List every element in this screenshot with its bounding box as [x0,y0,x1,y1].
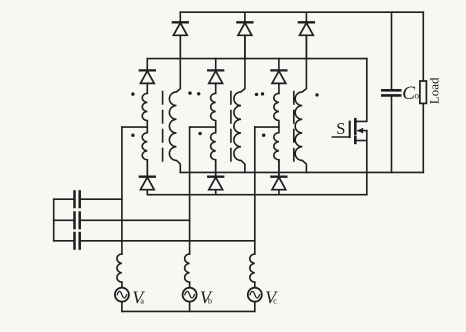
transformer T2 primary winding (tapped) [211,93,216,176]
diode D1 (top row) [173,22,188,35]
capacitor Cb (input filter) [75,213,80,229]
wire inductor to source c [254,282,256,288]
wire second bus [147,59,366,71]
resistor Load (box) [420,81,427,103]
wire output negative rail [180,171,423,173]
wire capacitor Cb left lead [54,219,74,221]
wire tap of T2 to phase line [190,126,216,128]
wire load top lead [422,12,424,81]
capacitor Ca (input filter) [75,191,80,207]
wire capacitor Co bottom lead [391,97,393,173]
wire neutral return [122,310,255,312]
polarity dot T2 primary lower [198,132,201,135]
wire tap of T1 to phase line [122,126,147,128]
diode D7 (bottom row) [140,177,155,190]
transistor S (MOSFET switch) [332,119,366,143]
wire bottom diode D9 leads [278,160,280,195]
wire top diode D3 leads [305,12,307,58]
wire tap of T3 to phase line [255,126,279,128]
wire bottom bus (diode anode rail) [147,194,366,196]
svg-text:Load: Load [426,77,441,104]
transformer T3 primary winding (tapped) [274,93,279,176]
wire load bottom lead [422,103,424,172]
polarity dot T2 primary [197,92,200,95]
wire inductor to source a [121,282,123,288]
wire source a to neutral [121,302,123,312]
wire top diode D2 leads [244,12,246,58]
polarity dot T1 primary [131,92,134,95]
transformer T2 core [230,92,232,162]
diode D6 (middle row) [271,70,286,83]
wire capacitor Ca left lead [54,198,74,200]
source Vc (AC) [248,288,262,302]
diode D3 (top row) [299,22,314,35]
polarity dot T3 primary [261,92,264,95]
diode D9 (bottom row) [271,177,286,190]
polarity dot T1 secondary [188,91,191,94]
wire phase c line [254,127,256,254]
wire bottom diode D7 leads [146,160,148,195]
wire bus to MOSFET drain [356,59,367,122]
wire mid diode D6 cathode stub [278,59,280,71]
wire mid diode D5 anode lead [215,83,217,93]
wire star-point bus of input capacitors [53,199,55,241]
wire source c to neutral [254,302,256,312]
capacitor Co [382,90,400,95]
transformer T1 secondary winding [169,36,180,172]
wire capacitor Cc left lead [54,240,74,242]
wire mid diode D5 cathode stub [215,59,217,71]
wire source b to neutral [189,302,191,312]
wire phase a line [121,127,123,254]
wire phase b line [189,127,191,254]
polarity dot T1 primary lower [131,134,134,137]
transformer T1 core [162,92,164,162]
diode D8 (bottom row) [208,177,223,190]
transformer T1 primary winding (tapped) [142,93,147,176]
wire bottom diode D8 leads [215,160,217,195]
diode D5 (middle row) [208,70,223,83]
wire mid diode D4 anode lead [146,83,148,93]
wire capacitor Cc right lead [81,240,255,242]
svg-text:S: S [336,119,345,138]
transformer T3 core [293,92,295,162]
wire top positive bus [180,11,423,13]
inductor La [117,254,122,282]
polarity dot T3 primary lower [262,134,265,137]
transformer T2 secondary winding [234,36,245,172]
wire MOSFET source down to rails [366,131,368,195]
wire top diode D1 leads [179,12,181,58]
transformer T3 secondary winding [295,36,306,172]
polarity dot T3 secondary [315,93,318,96]
wire mid diode D6 anode lead [278,83,280,93]
wire capacitor Ca right lead [81,198,122,200]
source Va (AC) [115,288,129,302]
diode D4 (middle row) [140,70,155,83]
diode D2 (top row) [237,22,252,35]
wire capacitor Co top lead [391,12,393,89]
source Vb (AC) [183,288,197,302]
wire inductor to source b [189,282,191,288]
capacitor Cc (input filter) [75,233,80,249]
inductor Lb [185,254,190,282]
polarity dot T2 secondary [255,93,258,96]
wire capacitor Cb right lead [81,219,190,221]
inductor Lc [250,254,255,282]
